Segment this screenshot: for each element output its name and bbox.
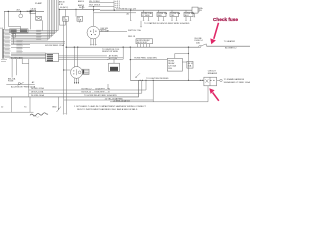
svg-text:30 (B): 30 (B) [79,7,85,9]
svg-text:BLOWER 12: BLOWER 12 [225,47,237,49]
svg-text:20 GRN-16GA: 20 GRN-16GA [31,94,45,97]
svg-text:HORN FEED 16GA GRN: HORN FEED 16GA GRN [134,57,157,60]
svg-text:ACC-BAT: ACC-BAT [101,29,110,32]
svg-text:AM1 B: AM1 B [78,0,85,3]
svg-text:TO HORN RELAY FEED 16GA GRN: TO HORN RELAY FEED 16GA GRN [84,94,117,97]
svg-text:35 AMP: 35 AMP [35,2,43,5]
svg-text:TO FRAME HARNESS: TO FRAME HARNESS [224,78,245,81]
svg-text:12V 30A: 12V 30A [168,65,176,68]
svg-text:W-R 18 BLK: W-R 18 BLK [89,5,101,7]
svg-text:30 AMP: 30 AMP [27,10,35,13]
svg-text:AM1 RED: AM1 RED [10,56,19,59]
svg-text:RELAY: RELAY [168,62,175,65]
svg-text:BREAKER: BREAKER [208,72,218,75]
svg-text:18 BLK-14GA: 18 BLK-14GA [31,91,44,94]
svg-text:TO LIGHTING SW FEED: TO LIGHTING SW FEED [146,78,169,80]
svg-text:IGN SW FEED 12GA: IGN SW FEED 12GA [45,44,65,47]
svg-text:B2 BLK-14 — 16GA GRN — J4: B2 BLK-14 — 16GA GRN — J4 [82,90,111,93]
svg-text:TO FUSE BLOCK 12V: TO FUSE BLOCK 12V [116,9,137,11]
svg-text:TO HEATER: TO HEATER [224,40,236,43]
svg-text:SIGNAL AND LT FEED 14GA: SIGNAL AND LT FEED 14GA [224,81,250,84]
svg-text:B1 RED-12 — 14GA WHT — J2: B1 RED-12 — 14GA WHT — J2 [82,87,111,90]
svg-text:BUTTON: BUTTON [109,58,118,60]
svg-text:RUN TO INSTRUMENT HARNESS VIA: RUN TO INSTRUMENT HARNESS VIA J BAR A SE… [77,108,138,111]
svg-text:GND: GND [52,106,57,108]
svg-text:CB 30: CB 30 [31,8,37,10]
svg-text:16 RED-12GA: 16 RED-12GA [31,87,44,90]
svg-text:RED: RED [158,15,163,17]
svg-text:40 (ACC): 40 (ACC) [60,6,69,9]
svg-text:W-L 18 BLK: W-L 18 BLK [89,1,100,3]
svg-text:RED 18: RED 18 [128,36,136,38]
svg-text:AM2 B: AM2 B [78,4,85,7]
svg-text:RESISTOR WIRE: RESISTOR WIRE [102,51,119,53]
svg-text:Check fuse: Check fuse [213,17,238,22]
svg-text:FUSE: FUSE [8,80,14,82]
svg-text:SWITCH 7.5A: SWITCH 7.5A [128,29,141,32]
svg-text:TO STARTER SOLENOID FEED WIRE: TO STARTER SOLENOID FEED WIRE 10GA RED [144,22,190,25]
svg-text:BLU: BLU [185,15,189,17]
svg-text:24 BRN-16GA SIG: 24 BRN-16GA SIG [113,99,130,102]
svg-text:1 14753 AWG T-LEAD IN COMPART: 1 14753 AWG T-LEAD IN COMPARTMENT HARNES… [74,105,147,108]
